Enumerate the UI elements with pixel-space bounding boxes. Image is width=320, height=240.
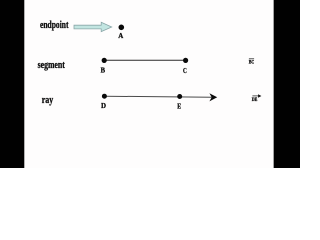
svg-text:D: D [101,101,106,110]
svg-text:ray: ray [42,94,54,106]
segment line B-C [104,59,185,61]
svg-text:A: A [118,31,124,40]
svg-text:C: C [183,67,187,75]
ray line from D through E [104,96,211,97]
svg-text:B: B [101,67,106,75]
endpoint dot A [119,25,125,31]
svg-text:DE: DE [252,98,258,103]
svg-text:BC: BC [249,61,255,66]
white background [0,0,300,168]
left black pillarbox strip [0,0,24,168]
ray notation DE with arrow over [252,94,262,103]
segment dot C [183,58,188,63]
svg-text:E: E [177,102,181,111]
ray arrowhead [209,93,217,101]
segment notation BC with overline [249,58,255,65]
ray dot D [102,94,107,99]
segment dot B [102,58,107,63]
block arrow (cyan) pointing to A [74,22,112,31]
svg-text:segment: segment [38,59,65,71]
ray dot E [177,94,182,99]
right black pillarbox strip [274,0,300,168]
svg-text:endpoint: endpoint [40,19,69,31]
